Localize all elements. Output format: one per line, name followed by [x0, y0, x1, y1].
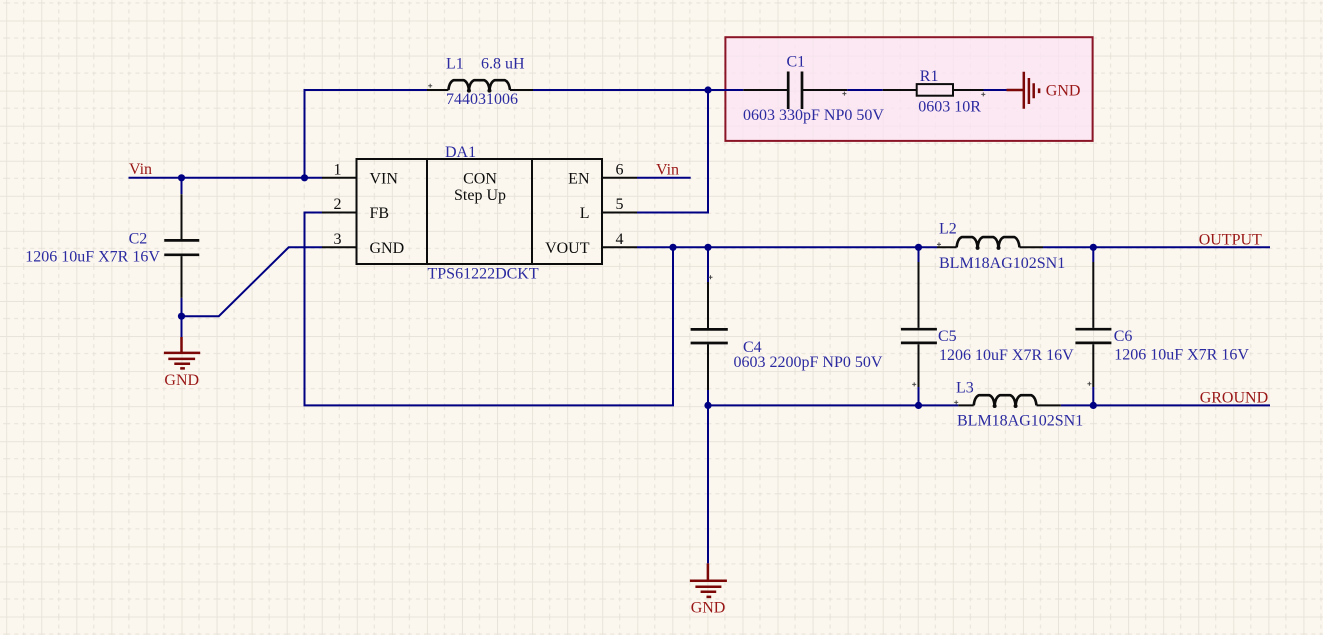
svg-text:BLM18AG102SN1: BLM18AG102SN1 [957, 413, 1083, 430]
wire pin3 GND to C2 bottom node [182, 247, 323, 316]
wire L1 to node at top [533, 89, 708, 91]
wire FB net: pin2 down and around to VOUT rail [305, 213, 674, 406]
wire C4 top [707, 247, 709, 282]
pin 3 GND stub [322, 246, 357, 248]
svg-text:R1: R1 [920, 68, 939, 85]
capacitor C2 [164, 194, 199, 298]
inductor L1 [427, 80, 533, 92]
wire R1 to GND power port [984, 89, 1007, 91]
svg-text:1: 1 [334, 161, 342, 178]
svg-text:TPS61222DCKT: TPS61222DCKT [428, 266, 539, 283]
pin hot-end marker near C5 [912, 382, 916, 386]
svg-text:BLM18AG102SN1: BLM18AG102SN1 [939, 255, 1065, 272]
svg-text:DA1: DA1 [445, 144, 476, 161]
junction node C4 top [704, 244, 711, 251]
svg-text:GND: GND [164, 372, 199, 389]
capacitor C4 [691, 282, 728, 390]
capacitor C6 [1075, 262, 1111, 387]
svg-text:L2: L2 [939, 221, 957, 238]
svg-text:C2: C2 [129, 230, 148, 247]
pin hot-end marker near L3 [954, 400, 958, 404]
svg-text:C6: C6 [1114, 328, 1133, 345]
wire C5 top [918, 247, 920, 262]
junction node at top rail / C1 branch [704, 86, 711, 93]
pin 4 VOUT stub [602, 246, 637, 248]
pin hot-end marker near L2 [937, 242, 941, 246]
svg-text:1206 10uF X7R 16V: 1206 10uF X7R 16V [1114, 347, 1249, 364]
wire C1 to R1 [847, 89, 883, 91]
wire riser from VIN node up to L1 [305, 90, 428, 178]
svg-text:VOUT: VOUT [545, 240, 590, 257]
svg-text:0603 2200pF NP0 50V: 0603 2200pF NP0 50V [734, 354, 883, 371]
junction node C6 top [1090, 244, 1097, 251]
svg-text:EN: EN [568, 170, 590, 187]
svg-text:FB: FB [370, 205, 390, 222]
svg-text:6: 6 [616, 161, 624, 178]
op-amp U1 : IC DA1 TPS61222DCKT body [357, 159, 603, 264]
junction node C4 bottom [704, 402, 711, 409]
wire C2 bottom to GND [181, 298, 183, 338]
wire C6 top [1092, 247, 1094, 262]
svg-text:744031006: 744031006 [446, 91, 518, 108]
pin 2 FB stub [322, 212, 357, 214]
wire ground rail to L3 [708, 404, 958, 406]
wire C6 bottom [1092, 387, 1094, 405]
capacitor C1 [743, 72, 847, 110]
junction node at Vin/C2 [178, 174, 185, 181]
power port GND (in highlight box, rotated) [1007, 72, 1040, 109]
ferrite bead L2 [937, 237, 1043, 250]
wire C5 bottom [918, 387, 920, 405]
pin 5 L stub [602, 212, 637, 214]
junction node at Vin/riser [301, 174, 308, 181]
svg-text:5: 5 [616, 196, 624, 213]
resistor R1 [883, 84, 984, 96]
svg-text:GND: GND [691, 600, 726, 617]
wire Vin to pin1 [129, 177, 323, 179]
svg-text:Step Up: Step Up [454, 187, 506, 204]
svg-text:L: L [580, 205, 590, 222]
pin hot-end marker near C6 [1087, 382, 1091, 386]
svg-text:Vin: Vin [656, 162, 679, 179]
ferrite bead L3 [958, 395, 1061, 408]
pin 6 EN stub [602, 177, 637, 179]
svg-text:6.8 uH: 6.8 uH [481, 56, 525, 73]
pin 1 VIN stub [322, 177, 357, 179]
svg-text:GND: GND [1046, 83, 1081, 100]
junction node C2 bottom [178, 313, 185, 320]
wire C2 top [181, 178, 183, 194]
svg-text:C1: C1 [787, 54, 806, 71]
svg-text:CON: CON [463, 171, 497, 188]
svg-text:0603 330pF NP0 50V: 0603 330pF NP0 50V [743, 107, 884, 124]
svg-text:1206 10uF X7R 16V: 1206 10uF X7R 16V [25, 249, 160, 266]
junction node FB/VOUT rail [669, 244, 676, 251]
wire C4 bottom down to GND symbol [707, 390, 709, 563]
wire ground rail right of L3 [1061, 404, 1270, 406]
svg-text:3: 3 [334, 231, 342, 248]
highlight box (snubber region) [725, 37, 1092, 141]
wire top node to C1 [708, 89, 743, 91]
svg-text:L1: L1 [446, 56, 464, 73]
wire pin6 EN to Vin label [637, 177, 691, 179]
power port GND (below C4) [690, 563, 727, 597]
svg-text:GROUND: GROUND [1200, 389, 1268, 406]
svg-text:4: 4 [616, 231, 624, 248]
power port GND (below C2) [164, 337, 200, 368]
svg-text:GND: GND [370, 240, 405, 257]
svg-text:0603 10R: 0603 10R [918, 99, 981, 116]
svg-text:1206 10uF X7R 16V: 1206 10uF X7R 16V [939, 347, 1074, 364]
svg-text:2: 2 [334, 196, 342, 213]
pin hot-end marker after R1 [981, 92, 985, 96]
junction node C5 top [915, 244, 922, 251]
pin hot-end marker near L1 [428, 84, 432, 88]
pin hot-end marker after C1 [842, 92, 846, 96]
wire top node down to pin5 L [637, 90, 708, 213]
svg-text:L3: L3 [956, 380, 974, 397]
pin hot-end marker near C4 [709, 275, 713, 279]
svg-text:VIN: VIN [370, 170, 399, 187]
svg-text:C5: C5 [938, 328, 957, 345]
wire OUTPUT rail right of L2 [1043, 246, 1270, 248]
svg-text:Vin: Vin [129, 161, 152, 178]
capacitor C5 [901, 262, 937, 387]
wire VOUT rail pin4 to L2 [637, 246, 937, 248]
junction node C6 bottom [1090, 402, 1097, 409]
junction node C5 bottom [915, 402, 922, 409]
svg-text:OUTPUT: OUTPUT [1199, 231, 1262, 248]
